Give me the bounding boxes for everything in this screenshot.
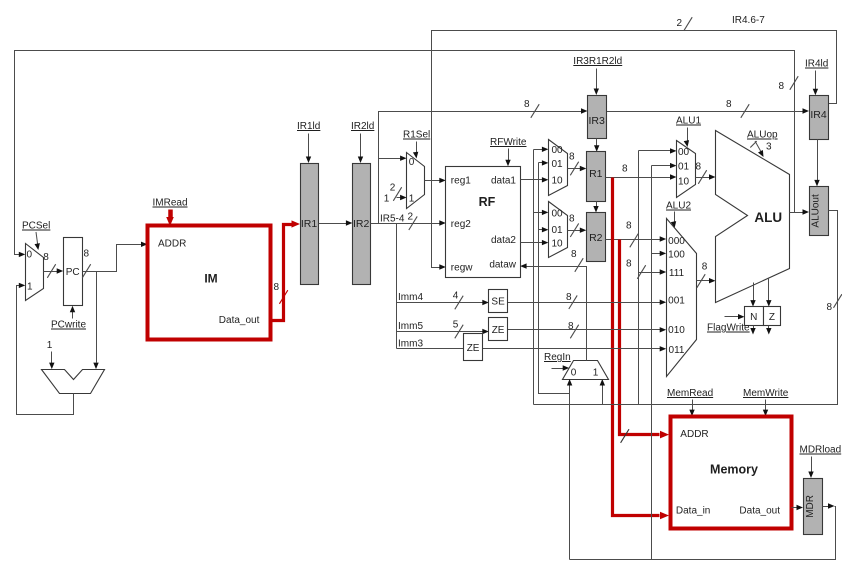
svg-text:8: 8 bbox=[626, 259, 632, 270]
svg-text:1: 1 bbox=[47, 340, 53, 351]
svg-text:IR5-4: IR5-4 bbox=[380, 214, 405, 225]
svg-text:2: 2 bbox=[676, 18, 682, 29]
svg-text:10: 10 bbox=[551, 176, 563, 187]
svg-text:8: 8 bbox=[726, 99, 732, 110]
svg-text:reg1: reg1 bbox=[451, 175, 471, 186]
svg-text:IR4.6-7: IR4.6-7 bbox=[732, 15, 765, 26]
svg-text:2: 2 bbox=[408, 212, 414, 223]
svg-text:010: 010 bbox=[668, 325, 685, 336]
svg-text:8: 8 bbox=[696, 162, 702, 173]
svg-text:ADDR: ADDR bbox=[680, 429, 708, 440]
svg-text:dataw: dataw bbox=[489, 260, 516, 271]
svg-text:4: 4 bbox=[453, 291, 459, 302]
svg-text:100: 100 bbox=[668, 249, 685, 260]
svg-text:FlagWrite: FlagWrite bbox=[707, 323, 750, 334]
svg-text:10: 10 bbox=[551, 239, 563, 250]
svg-text:IR3R1R2ld: IR3R1R2ld bbox=[573, 56, 622, 67]
svg-text:Data_out: Data_out bbox=[219, 315, 260, 326]
svg-text:Imm4: Imm4 bbox=[398, 292, 423, 303]
svg-text:8: 8 bbox=[43, 252, 49, 263]
svg-text:2: 2 bbox=[390, 183, 396, 194]
svg-text:8: 8 bbox=[826, 302, 832, 313]
svg-text:000: 000 bbox=[668, 236, 685, 247]
svg-text:5: 5 bbox=[453, 320, 459, 331]
svg-text:PC: PC bbox=[66, 267, 80, 278]
svg-text:01: 01 bbox=[678, 162, 690, 173]
svg-text:ALUop: ALUop bbox=[747, 130, 778, 141]
svg-text:ALU: ALU bbox=[754, 210, 782, 225]
svg-text:R2: R2 bbox=[589, 232, 603, 244]
svg-text:8: 8 bbox=[626, 221, 632, 232]
svg-text:ALU2: ALU2 bbox=[666, 201, 691, 212]
svg-text:8: 8 bbox=[524, 99, 530, 110]
svg-text:01: 01 bbox=[551, 159, 563, 170]
svg-text:8: 8 bbox=[702, 262, 708, 273]
svg-text:IR1ld: IR1ld bbox=[297, 121, 320, 132]
svg-text:IR4ld: IR4ld bbox=[805, 59, 828, 70]
svg-text:data1: data1 bbox=[491, 175, 516, 186]
svg-text:Data_in: Data_in bbox=[676, 506, 710, 517]
svg-text:MemWrite: MemWrite bbox=[743, 388, 789, 399]
svg-text:IM: IM bbox=[204, 272, 217, 286]
svg-text:1: 1 bbox=[27, 282, 33, 293]
svg-text:8: 8 bbox=[569, 152, 575, 163]
svg-text:MDR: MDR bbox=[805, 495, 816, 518]
svg-text:PCwrite: PCwrite bbox=[51, 320, 86, 331]
svg-text:8: 8 bbox=[84, 249, 90, 260]
svg-text:R1: R1 bbox=[589, 168, 603, 180]
svg-text:PCSel: PCSel bbox=[22, 221, 50, 232]
svg-text:8: 8 bbox=[568, 321, 574, 332]
svg-text:IMRead: IMRead bbox=[153, 198, 188, 209]
svg-text:IR2ld: IR2ld bbox=[351, 121, 374, 132]
svg-text:R1Sel: R1Sel bbox=[403, 130, 430, 141]
svg-text:3: 3 bbox=[766, 142, 772, 153]
svg-text:Data_out: Data_out bbox=[739, 506, 780, 517]
svg-text:0: 0 bbox=[27, 250, 33, 261]
svg-text:MDRload: MDRload bbox=[800, 445, 842, 456]
svg-text:IR4: IR4 bbox=[810, 109, 827, 121]
svg-text:10: 10 bbox=[678, 176, 690, 187]
svg-text:001: 001 bbox=[668, 296, 685, 307]
svg-text:111: 111 bbox=[669, 268, 685, 279]
svg-text:1: 1 bbox=[384, 194, 390, 205]
svg-text:SE: SE bbox=[491, 297, 505, 308]
svg-text:RegIn: RegIn bbox=[544, 352, 571, 363]
svg-text:0: 0 bbox=[571, 367, 577, 378]
svg-text:00: 00 bbox=[551, 145, 563, 156]
svg-text:IR1: IR1 bbox=[301, 218, 318, 230]
svg-text:8: 8 bbox=[273, 282, 279, 293]
svg-text:data2: data2 bbox=[491, 235, 516, 246]
svg-text:N: N bbox=[750, 312, 757, 323]
svg-text:Imm5: Imm5 bbox=[398, 321, 423, 332]
svg-text:011: 011 bbox=[669, 345, 685, 356]
svg-text:RF: RF bbox=[479, 195, 496, 209]
svg-text:reg2: reg2 bbox=[451, 219, 471, 230]
svg-text:0: 0 bbox=[409, 157, 415, 168]
svg-text:00: 00 bbox=[551, 208, 563, 219]
svg-text:RFWrite: RFWrite bbox=[490, 137, 527, 148]
svg-text:00: 00 bbox=[678, 147, 690, 158]
svg-text:MemRead: MemRead bbox=[667, 388, 713, 399]
svg-text:IR3: IR3 bbox=[589, 115, 606, 127]
svg-text:8: 8 bbox=[569, 214, 575, 225]
svg-text:Imm3: Imm3 bbox=[398, 339, 423, 350]
svg-text:regw: regw bbox=[451, 262, 473, 273]
svg-text:ZE: ZE bbox=[492, 325, 505, 336]
svg-text:8: 8 bbox=[566, 292, 572, 303]
svg-text:8: 8 bbox=[778, 81, 784, 92]
svg-text:8: 8 bbox=[571, 249, 577, 260]
svg-text:1: 1 bbox=[409, 194, 415, 205]
svg-text:Memory: Memory bbox=[710, 463, 758, 477]
svg-text:ADDR: ADDR bbox=[158, 238, 186, 249]
svg-text:ALU1: ALU1 bbox=[676, 116, 701, 127]
svg-text:8: 8 bbox=[622, 164, 628, 175]
svg-text:IR2: IR2 bbox=[353, 218, 370, 230]
svg-text:1: 1 bbox=[593, 367, 599, 378]
svg-text:Z: Z bbox=[769, 312, 775, 323]
svg-text:01: 01 bbox=[551, 225, 563, 236]
svg-text:ZE: ZE bbox=[467, 343, 480, 354]
svg-text:ALUout: ALUout bbox=[811, 194, 822, 228]
